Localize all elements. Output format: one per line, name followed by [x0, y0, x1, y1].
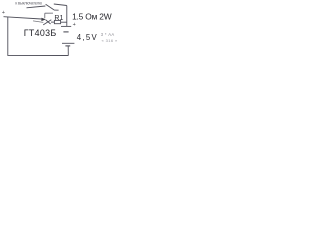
svg-text:ГТ403Б: ГТ403Б — [24, 28, 57, 38]
switch S1 stub — [54, 9, 59, 11]
svg-text:« 316 »: « 316 » — [102, 38, 119, 43]
battery GB1 cell1 long plate — [61, 25, 71, 27]
wire — [44, 13, 46, 18]
battery GB1 cell2 short plate — [65, 45, 70, 47]
svg-text:+: + — [2, 10, 5, 16]
switch S1 fixed contact — [54, 4, 67, 6]
svg-text:к выключателю: к выключателю — [15, 0, 42, 5]
wire — [51, 21, 54, 23]
battery GB1 cell2 long plate — [62, 42, 74, 44]
switch S1 blade — [46, 4, 54, 10]
svg-text:4,5V: 4,5V — [77, 33, 98, 42]
wire — [7, 17, 9, 56]
svg-text:1.5 Ом 2W: 1.5 Ом 2W — [72, 12, 112, 22]
wire — [7, 54, 68, 56]
svg-text:3 * АА: 3 * АА — [101, 32, 115, 37]
wire — [67, 46, 69, 55]
resistor R1 box — [54, 20, 60, 23]
svg-text:+: + — [73, 22, 76, 28]
battery GB1 cell1 short plate — [63, 31, 68, 33]
wire — [27, 6, 46, 8]
wire — [33, 21, 43, 23]
svg-text:R1: R1 — [54, 15, 63, 22]
transistor VT1 base diagonal — [43, 20, 51, 25]
transistor VT1 emitter wire — [4, 17, 42, 19]
wire — [61, 21, 67, 23]
wire — [66, 6, 68, 27]
wire — [45, 12, 53, 14]
transistor VT1 emitter arrow — [41, 18, 46, 21]
transistor VT1 collector diagonal — [46, 20, 51, 24]
